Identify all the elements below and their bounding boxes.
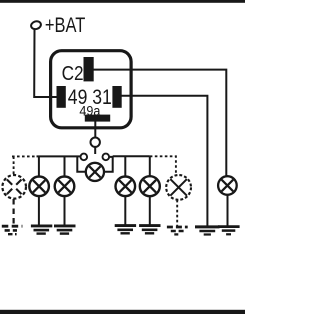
switch right contact	[103, 154, 110, 161]
wire lamp L3 to ground	[64, 196, 66, 225]
pin 31	[112, 86, 121, 108]
relay box	[51, 51, 132, 128]
switch stem	[94, 147, 96, 154]
dashed wire lamp L1 to ground	[13, 199, 15, 225]
wire lamp L5 to ground	[149, 196, 151, 225]
wire bus to lamp L4	[124, 156, 126, 176]
lamp L3	[55, 177, 75, 197]
wire lamp L2 to ground	[38, 196, 40, 225]
lamp L1 (dashed, optional)	[2, 175, 26, 199]
branch right contact to indicator lamp and bus corner	[104, 157, 113, 172]
wire bus to lamp L5	[149, 156, 151, 176]
dashed wire lamp L6 to ground	[176, 200, 178, 226]
ground L1 (dashed)	[2, 226, 23, 234]
wire +BAT down to pin 49	[34, 29, 58, 97]
left bus	[37, 155, 81, 157]
lamp L4	[116, 177, 136, 197]
switch left contact	[81, 154, 88, 161]
+BAT terminal	[30, 20, 42, 30]
ground L2	[31, 226, 52, 234]
lamp L5	[140, 176, 160, 196]
wire lamp L4 to ground	[124, 196, 126, 225]
right bus dotted segment with drop to lamp L6	[150, 156, 176, 174]
svg-text:+BAT: +BAT	[45, 14, 86, 37]
pin 49a	[85, 115, 110, 122]
wire pin 31 right to ground	[122, 96, 208, 226]
lamp L7	[218, 176, 237, 195]
wire lamp L7 to ground	[227, 195, 229, 226]
wire pin 49a down to switch	[94, 121, 96, 138]
indicator lamp	[86, 163, 104, 181]
branch left to indicator lamp	[77, 156, 86, 171]
ground L3	[54, 226, 76, 234]
svg-text:C2: C2	[62, 63, 84, 85]
bottom frame border	[0, 310, 245, 314]
right bus	[113, 155, 150, 157]
ground L5	[139, 226, 160, 234]
lamp L2	[29, 177, 49, 197]
top frame border	[0, 0, 245, 3]
wire bus to lamp L2	[38, 156, 40, 176]
dotted drop bus to lamp L1	[13, 156, 15, 175]
wire pin C2 right to lamp L7	[93, 70, 226, 176]
ground L4	[115, 226, 136, 234]
ground L6 (dashed)	[167, 227, 188, 234]
pin C2	[84, 57, 94, 81]
left bus dotted segment	[12, 155, 37, 157]
ground L7	[218, 227, 240, 235]
wire bus to lamp L3	[64, 156, 66, 176]
lamp L6 (dashed, optional)	[166, 175, 191, 200]
ground for wire 31	[195, 227, 220, 235]
switch pole	[91, 138, 100, 147]
pin 49	[57, 86, 66, 108]
